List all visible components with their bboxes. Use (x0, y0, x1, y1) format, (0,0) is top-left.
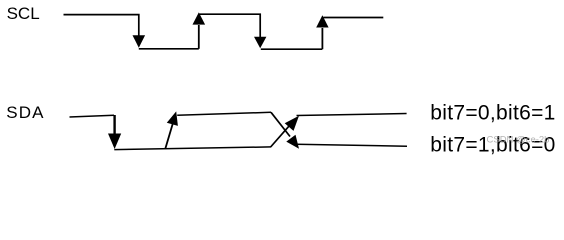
svg-text:bit7=0,bit6=1: bit7=0,bit6=1 (430, 101, 555, 124)
svg-text:SDA: SDA (6, 103, 44, 122)
svg-text:CSDN @ce-2b: CSDN @ce-2b (487, 134, 550, 145)
svg-text:SCL: SCL (7, 4, 40, 23)
